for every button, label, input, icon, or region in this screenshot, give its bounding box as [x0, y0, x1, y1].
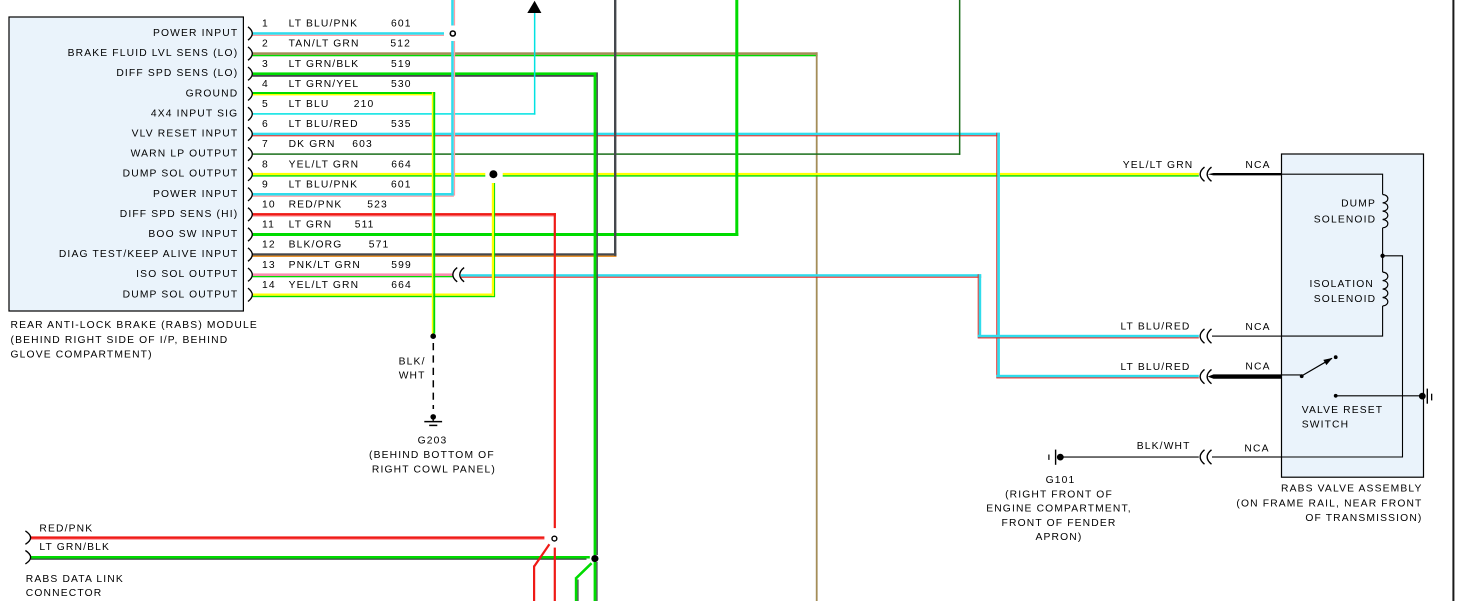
svg-text:3: 3 [262, 59, 269, 70]
svg-text:LT GRN: LT GRN [289, 220, 333, 231]
svg-text:REAR ANTI-LOCK BRAKE (RABS) MO: REAR ANTI-LOCK BRAKE (RABS) MODULE [11, 320, 258, 331]
svg-text:PNK/LT GRN: PNK/LT GRN [289, 260, 361, 271]
svg-text:2: 2 [262, 39, 269, 50]
svg-text:8: 8 [262, 159, 269, 170]
svg-text:DUMP SOL OUTPUT: DUMP SOL OUTPUT [123, 169, 239, 180]
svg-text:ISO SOL OUTPUT: ISO SOL OUTPUT [136, 269, 238, 280]
svg-text:NCA: NCA [1245, 160, 1270, 171]
svg-text:664: 664 [391, 159, 412, 170]
svg-text:YEL/LT GRN: YEL/LT GRN [289, 159, 360, 170]
svg-text:6: 6 [262, 119, 269, 130]
svg-text:LT GRN/BLK: LT GRN/BLK [39, 542, 110, 553]
svg-text:LT BLU/PNK: LT BLU/PNK [289, 19, 359, 30]
svg-text:13: 13 [262, 260, 276, 271]
svg-text:WARN LP OUTPUT: WARN LP OUTPUT [131, 149, 239, 160]
svg-text:4X4 INPUT SIG: 4X4 INPUT SIG [151, 108, 238, 119]
svg-text:DIAG TEST/KEEP ALIVE INPUT: DIAG TEST/KEEP ALIVE INPUT [59, 249, 238, 260]
svg-text:RED/PNK: RED/PNK [39, 524, 93, 535]
svg-text:12: 12 [262, 240, 276, 251]
svg-text:10: 10 [262, 200, 276, 211]
svg-text:DIFF SPD SENS (LO): DIFF SPD SENS (LO) [116, 68, 238, 79]
svg-text:(ON FRAME RAIL, NEAR FRONT: (ON FRAME RAIL, NEAR FRONT [1236, 498, 1422, 509]
svg-text:G203: G203 [418, 435, 448, 446]
svg-text:DIFF SPD SENS (HI): DIFF SPD SENS (HI) [120, 209, 239, 220]
svg-text:14: 14 [262, 280, 276, 291]
svg-text:POWER INPUT: POWER INPUT [153, 28, 238, 39]
svg-text:LT BLU/RED: LT BLU/RED [289, 119, 359, 130]
svg-text:YEL/LT GRN: YEL/LT GRN [289, 280, 360, 291]
svg-text:BRAKE FLUID LVL SENS (LO): BRAKE FLUID LVL SENS (LO) [68, 48, 239, 59]
svg-text:RABS DATA LINK: RABS DATA LINK [26, 574, 124, 585]
svg-text:7: 7 [262, 139, 269, 150]
svg-text:VALVE RESET: VALVE RESET [1302, 405, 1384, 416]
svg-text:(BEHIND BOTTOM OF: (BEHIND BOTTOM OF [369, 450, 495, 461]
svg-text:BLK/: BLK/ [399, 356, 426, 367]
svg-text:LT GRN/YEL: LT GRN/YEL [289, 79, 360, 90]
svg-text:GROUND: GROUND [186, 88, 239, 99]
svg-text:APRON): APRON) [1036, 532, 1083, 543]
svg-text:(RIGHT FRONT OF: (RIGHT FRONT OF [1005, 489, 1113, 500]
svg-text:9: 9 [262, 179, 269, 190]
svg-text:601: 601 [391, 179, 412, 190]
svg-text:DUMP SOL OUTPUT: DUMP SOL OUTPUT [123, 289, 239, 300]
svg-text:664: 664 [391, 280, 412, 291]
svg-text:5: 5 [262, 99, 269, 110]
svg-text:210: 210 [354, 99, 375, 110]
svg-text:SOLENOID: SOLENOID [1314, 214, 1376, 225]
svg-text:LT BLU/PNK: LT BLU/PNK [289, 179, 359, 190]
svg-text:TAN/LT GRN: TAN/LT GRN [289, 39, 360, 50]
svg-text:G101: G101 [1046, 475, 1076, 486]
svg-text:OF TRANSMISSION): OF TRANSMISSION) [1305, 513, 1422, 524]
svg-text:SWITCH: SWITCH [1302, 419, 1350, 430]
svg-text:YEL/LT GRN: YEL/LT GRN [1123, 160, 1194, 171]
svg-text:NCA: NCA [1244, 443, 1269, 454]
svg-text:LT BLU: LT BLU [289, 99, 330, 110]
svg-text:BLK/WHT: BLK/WHT [1137, 441, 1191, 452]
svg-text:11: 11 [262, 220, 275, 231]
svg-text:CONNECTOR: CONNECTOR [26, 588, 103, 599]
svg-text:DUMP: DUMP [1341, 199, 1376, 210]
svg-text:POWER INPUT: POWER INPUT [153, 189, 238, 200]
svg-text:VLV RESET INPUT: VLV RESET INPUT [132, 129, 239, 140]
svg-text:RABS VALVE ASSEMBLY: RABS VALVE ASSEMBLY [1281, 484, 1422, 495]
svg-text:NCA: NCA [1245, 361, 1270, 372]
svg-text:WHT: WHT [399, 371, 426, 382]
svg-text:BOO SW INPUT: BOO SW INPUT [148, 229, 238, 240]
svg-text:LT BLU/RED: LT BLU/RED [1120, 322, 1190, 333]
svg-text:523: 523 [367, 200, 388, 211]
svg-text:(BEHIND RIGHT SIDE OF I/P, BEH: (BEHIND RIGHT SIDE OF I/P, BEHIND [11, 335, 229, 346]
svg-text:530: 530 [391, 79, 412, 90]
svg-text:535: 535 [391, 119, 412, 130]
svg-text:ENGINE COMPARTMENT,: ENGINE COMPARTMENT, [986, 504, 1132, 515]
svg-text:FRONT OF FENDER: FRONT OF FENDER [1002, 518, 1117, 529]
svg-text:LT GRN/BLK: LT GRN/BLK [289, 59, 360, 70]
svg-text:603: 603 [352, 139, 373, 150]
svg-text:1: 1 [262, 19, 269, 30]
svg-text:SOLENOID: SOLENOID [1314, 294, 1376, 305]
svg-text:RED/PNK: RED/PNK [289, 200, 343, 211]
svg-text:GLOVE COMPARTMENT): GLOVE COMPARTMENT) [11, 349, 153, 360]
svg-text:BLK/ORG: BLK/ORG [289, 240, 343, 251]
svg-text:LT BLU/RED: LT BLU/RED [1120, 362, 1190, 373]
svg-text:511: 511 [355, 220, 375, 231]
svg-text:599: 599 [391, 260, 412, 271]
svg-text:NCA: NCA [1245, 322, 1270, 333]
svg-text:ISOLATION: ISOLATION [1309, 279, 1374, 290]
svg-text:DK GRN: DK GRN [289, 139, 336, 150]
svg-text:4: 4 [262, 79, 269, 90]
svg-text:519: 519 [391, 59, 412, 70]
svg-text:RIGHT COWL PANEL): RIGHT COWL PANEL) [372, 465, 496, 476]
svg-text:601: 601 [391, 19, 412, 30]
svg-text:571: 571 [369, 240, 390, 251]
svg-text:512: 512 [390, 39, 411, 50]
